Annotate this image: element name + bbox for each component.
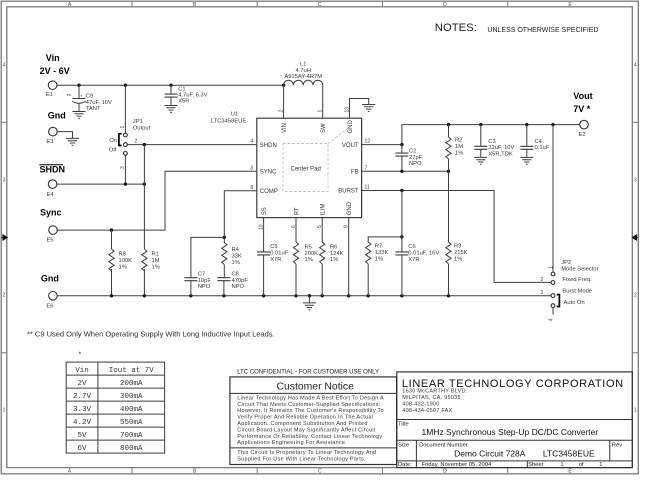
svg-text:NOTES:: NOTES: xyxy=(435,22,477,34)
wire SHDN jumper to U1 xyxy=(127,144,257,146)
svg-text:X7R: X7R xyxy=(270,257,281,263)
svg-text:1M: 1M xyxy=(455,144,463,150)
svg-text:Application. Component Substit: Application. Component Substitution And … xyxy=(237,421,367,427)
svg-text:R1: R1 xyxy=(152,252,159,258)
svg-text:Off: Off xyxy=(109,147,117,153)
junction dots ground bus xyxy=(110,294,450,297)
svg-text:Customer Notice: Customer Notice xyxy=(277,382,355,393)
svg-text:300mA: 300mA xyxy=(120,393,143,401)
svg-text:C4: C4 xyxy=(535,139,543,145)
svg-text:D: D xyxy=(443,2,447,8)
resistor R8 xyxy=(109,230,132,296)
node SHDN label xyxy=(39,164,65,174)
svg-text:Auto On: Auto On xyxy=(564,300,585,306)
capacitor C1 xyxy=(165,85,208,105)
svg-text:*: * xyxy=(79,352,82,359)
svg-text:1%: 1% xyxy=(455,150,463,156)
wire BURST branch to R7/C6 xyxy=(368,191,402,243)
resistor R7 xyxy=(366,242,389,296)
svg-text:1: 1 xyxy=(3,408,6,414)
svg-text:C: C xyxy=(318,2,322,8)
svg-text:Demo Circuit 728A: Demo Circuit 728A xyxy=(454,448,526,458)
svg-text:Circuit That Meets Customer-Su: Circuit That Meets Customer-Supplied Spe… xyxy=(237,402,380,408)
inductor L1 xyxy=(284,62,323,86)
svg-text:LTC3458EUE: LTC3458EUE xyxy=(543,448,595,458)
svg-text:X5R: X5R xyxy=(178,99,189,105)
U1 pin names xyxy=(260,120,359,216)
svg-text:Verify Proper And Reliable Ope: Verify Proper And Reliable Operation In … xyxy=(237,415,373,421)
svg-text:Vout: Vout xyxy=(573,91,592,101)
svg-text:ILIM: ILIM xyxy=(321,204,327,216)
ground C3 xyxy=(474,157,487,164)
svg-text:UNLESS OTHERWISE SPECIFIED: UNLESS OTHERWISE SPECIFIED xyxy=(487,27,598,34)
svg-text:Output: Output xyxy=(133,126,151,132)
svg-text:2: 2 xyxy=(540,277,543,283)
IC U1 LTC3458EUE body xyxy=(211,112,362,218)
svg-text:Circuit Board Layout May Signi: Circuit Board Layout May Significantly A… xyxy=(237,427,375,433)
junction on SHDN wire xyxy=(143,143,146,146)
svg-text:10pF: 10pF xyxy=(198,278,212,284)
svg-text:Gnd: Gnd xyxy=(48,110,66,120)
svg-text:3.3V: 3.3V xyxy=(73,406,92,414)
svg-text:JP2: JP2 xyxy=(561,260,571,266)
svg-text:D: D xyxy=(443,469,447,475)
wire Sync net xyxy=(57,171,256,230)
svg-text:3: 3 xyxy=(540,290,543,296)
svg-text:TANT: TANT xyxy=(86,106,101,112)
capacitor C7 xyxy=(184,271,211,295)
svg-text:GND: GND xyxy=(348,120,354,134)
jumper JP2 Mode Selector xyxy=(540,125,598,322)
svg-text:This Circuit Is Proprietary To: This Circuit Is Proprietary To Linear Te… xyxy=(237,450,376,456)
svg-text:U1: U1 xyxy=(231,112,238,118)
svg-text:Vin: Vin xyxy=(75,367,89,375)
svg-text:RT: RT xyxy=(294,207,300,215)
svg-text:SHDN: SHDN xyxy=(40,164,66,174)
ground E3 xyxy=(66,138,79,145)
title block xyxy=(397,372,633,468)
svg-text:2V: 2V xyxy=(77,380,87,388)
svg-text:700mA: 700mA xyxy=(120,432,143,440)
wire GND pin 13 xyxy=(350,99,369,119)
wire GND pin 9 xyxy=(348,218,350,296)
U1 center pad xyxy=(283,128,349,192)
svg-text:R3: R3 xyxy=(454,244,461,250)
svg-text:3: 3 xyxy=(120,166,126,169)
svg-text:5V: 5V xyxy=(77,432,87,440)
svg-text:On: On xyxy=(109,138,117,144)
resistor R4 xyxy=(222,237,242,277)
terminal E3 xyxy=(49,127,58,136)
wire COMP net xyxy=(191,191,257,278)
junction BURST xyxy=(400,189,403,192)
svg-text:0.01uF: 0.01uF xyxy=(270,251,289,257)
svg-text:E4: E4 xyxy=(47,192,55,198)
junctions FB net xyxy=(400,170,450,173)
svg-text:SHDN: SHDN xyxy=(260,143,277,149)
svg-text:Rev: Rev xyxy=(612,442,622,448)
svg-text:1%: 1% xyxy=(232,260,240,266)
svg-text:A915AY-4R7M: A915AY-4R7M xyxy=(284,74,322,80)
svg-text:COMP: COMP xyxy=(260,189,278,195)
svg-text:1M: 1M xyxy=(152,258,160,264)
terminal E1 xyxy=(48,81,57,90)
svg-text:Applications Engineering For A: Applications Engineering For Assistance. xyxy=(237,440,347,446)
svg-text:2: 2 xyxy=(3,293,6,299)
svg-text:C3: C3 xyxy=(488,139,495,145)
svg-text:C5: C5 xyxy=(270,244,277,250)
capacitor C4 xyxy=(520,125,549,158)
svg-text:133K: 133K xyxy=(375,250,389,256)
terminal E4 xyxy=(48,180,57,189)
svg-text:FB: FB xyxy=(351,170,359,176)
svg-text:1: 1 xyxy=(560,462,563,468)
svg-text:E3: E3 xyxy=(46,139,53,145)
svg-text:JP1: JP1 xyxy=(133,119,143,125)
junction R7 branch xyxy=(400,235,403,238)
svg-text:4: 4 xyxy=(548,318,554,321)
resistor R6 on ILIM xyxy=(320,218,344,296)
svg-text:Iout at 7V: Iout at 7V xyxy=(109,367,155,375)
svg-text:3: 3 xyxy=(3,178,6,184)
resistor R3 xyxy=(446,171,468,295)
table Vin vs Iout xyxy=(66,362,164,453)
svg-text:47uF, 10V: 47uF, 10V xyxy=(86,100,112,106)
svg-text:4: 4 xyxy=(634,63,637,69)
svg-text:0.01uF, 16V: 0.01uF, 16V xyxy=(408,251,439,257)
svg-text:1630 McCARTHY BLVD.: 1630 McCARTHY BLVD. xyxy=(402,389,467,395)
capacitor C3 xyxy=(474,125,514,158)
wire ground bus xyxy=(57,295,551,297)
svg-text:1%: 1% xyxy=(330,257,338,263)
wire SS pin to C5 xyxy=(263,218,265,252)
wire VOUT pin to rail xyxy=(362,125,580,145)
U1 pin numbers xyxy=(250,107,370,230)
svg-text:VIN: VIN xyxy=(282,123,288,133)
svg-text:E6: E6 xyxy=(46,303,53,309)
svg-text:MILPITAS, CA. 95035: MILPITAS, CA. 95035 xyxy=(402,395,460,401)
svg-text:33K: 33K xyxy=(232,253,242,259)
wire Vin rail xyxy=(57,84,284,86)
svg-text:3: 3 xyxy=(250,165,253,171)
svg-text:215K: 215K xyxy=(454,250,468,256)
svg-text:of: of xyxy=(579,462,584,468)
svg-text:LTC CONFIDENTIAL - FOR CUSTOME: LTC CONFIDENTIAL - FOR CUSTOMER USE ONLY xyxy=(237,369,379,375)
svg-text:408-434-0507 FAX: 408-434-0507 FAX xyxy=(402,408,452,414)
resistor R5 on RT xyxy=(293,218,318,296)
svg-text:R5: R5 xyxy=(305,244,312,250)
svg-text:0.1uF: 0.1uF xyxy=(535,145,550,151)
wire E3 to ground xyxy=(57,132,72,139)
wire SHDN from E4 xyxy=(57,183,144,185)
capacitor C8 xyxy=(217,271,248,295)
svg-text:Sheet: Sheet xyxy=(528,462,544,468)
svg-text:E1: E1 xyxy=(46,92,53,98)
svg-text:8: 8 xyxy=(250,185,253,191)
svg-text:7: 7 xyxy=(365,165,368,171)
svg-text:** C9 Used Only When Operating: ** C9 Used Only When Operating Supply Wi… xyxy=(27,330,275,339)
ground C1 xyxy=(165,106,178,113)
svg-text:Sync: Sync xyxy=(40,208,62,218)
terminal E6 xyxy=(49,292,58,301)
svg-text:800mA: 800mA xyxy=(120,445,143,453)
svg-text:11: 11 xyxy=(365,185,370,191)
wire BURST net xyxy=(362,191,552,283)
wire FB net xyxy=(362,170,449,172)
svg-text:SS: SS xyxy=(262,207,268,215)
svg-text:+: + xyxy=(80,94,83,99)
svg-text:NPO: NPO xyxy=(409,161,422,167)
junction dots Vin rail xyxy=(77,84,285,87)
svg-text:C1: C1 xyxy=(178,87,185,93)
svg-text:X5R,TDK: X5R,TDK xyxy=(488,151,513,157)
svg-text:1%: 1% xyxy=(305,257,313,263)
svg-text:R6: R6 xyxy=(330,244,337,250)
svg-text:Size: Size xyxy=(398,442,409,448)
svg-text:1%: 1% xyxy=(454,256,462,262)
svg-text:4: 4 xyxy=(3,63,6,69)
svg-text:1: 1 xyxy=(634,408,637,414)
junction Sync wire xyxy=(110,228,113,231)
svg-text:1: 1 xyxy=(599,462,602,468)
svg-text:C7: C7 xyxy=(198,271,205,277)
svg-text:R4: R4 xyxy=(232,247,240,253)
svg-text:408-432-1900: 408-432-1900 xyxy=(402,401,439,407)
svg-text:NPO: NPO xyxy=(198,284,211,290)
svg-text:VOUT: VOUT xyxy=(342,143,359,149)
svg-text:Title: Title xyxy=(398,421,409,427)
svg-text:LTC3458EUE: LTC3458EUE xyxy=(211,118,246,124)
svg-text:1: 1 xyxy=(548,266,554,269)
junctions SHDN wire xyxy=(124,182,146,185)
svg-text:400mA: 400mA xyxy=(120,406,143,414)
junction dots output rail xyxy=(400,123,555,146)
capacitor C6 xyxy=(395,237,439,296)
svg-text:4.7uF, 6.3V: 4.7uF, 6.3V xyxy=(178,93,207,99)
svg-text:12: 12 xyxy=(365,139,371,145)
svg-text:Vin: Vin xyxy=(46,53,60,63)
terminal E5 xyxy=(49,226,58,235)
svg-text:3: 3 xyxy=(634,178,637,184)
svg-text:124K: 124K xyxy=(330,251,344,257)
svg-text:4.7uH: 4.7uH xyxy=(295,68,310,74)
jumper JP1 Output xyxy=(109,85,151,184)
svg-text:1: 1 xyxy=(120,126,126,129)
ground symbol on bus xyxy=(303,296,316,310)
svg-text:C: C xyxy=(318,469,322,475)
svg-text:E5: E5 xyxy=(47,238,54,244)
svg-text:1%: 1% xyxy=(152,265,160,271)
resistor R1 xyxy=(142,249,160,271)
svg-text:C2: C2 xyxy=(409,149,416,155)
svg-text:100K: 100K xyxy=(119,258,133,264)
svg-text:Burst Mode: Burst Mode xyxy=(562,288,592,294)
svg-text:200K: 200K xyxy=(305,251,319,257)
svg-text:GND: GND xyxy=(347,201,353,215)
svg-text:C9: C9 xyxy=(86,94,93,100)
svg-text:2V - 6V: 2V - 6V xyxy=(40,66,70,76)
terminal E2 xyxy=(580,120,589,129)
svg-text:Fixed Freq.: Fixed Freq. xyxy=(562,277,592,283)
customer notice box xyxy=(230,377,397,465)
svg-text:Date:: Date: xyxy=(398,462,412,468)
capacitor C2 xyxy=(395,145,422,172)
svg-text:However, It Remains The Custom: However, It Remains The Customer's Respo… xyxy=(237,408,384,414)
svg-text:1%: 1% xyxy=(119,265,127,271)
svg-text:2: 2 xyxy=(634,293,637,299)
svg-text:Performance Or Reliability. Co: Performance Or Reliability. Contact Line… xyxy=(237,434,382,440)
svg-text:22uF, 10V: 22uF, 10V xyxy=(488,145,514,151)
svg-text:Friday, November 05, 2004: Friday, November 05, 2004 xyxy=(422,462,493,468)
wire VIN pin xyxy=(283,85,285,118)
svg-text:4: 4 xyxy=(250,139,253,145)
svg-text:L1: L1 xyxy=(300,62,306,68)
svg-text:SW: SW xyxy=(321,123,327,133)
svg-text:Mode Selector: Mode Selector xyxy=(561,266,598,272)
svg-text:**: ** xyxy=(67,94,72,100)
svg-text:X7R: X7R xyxy=(408,257,419,263)
capacitor C9 xyxy=(67,85,113,112)
svg-text:C6: C6 xyxy=(408,244,415,250)
wire R1 branch xyxy=(143,145,145,296)
svg-text:E2: E2 xyxy=(579,132,586,138)
svg-text:R7: R7 xyxy=(375,244,382,250)
resistor R2 xyxy=(446,125,463,172)
wire SW pin xyxy=(322,85,324,118)
svg-text:R8: R8 xyxy=(119,252,126,258)
svg-text:Linear Technology Has Made A B: Linear Technology Has Made A Best Effort… xyxy=(237,395,384,401)
svg-text:SYNC: SYNC xyxy=(260,170,277,176)
svg-text:470pF: 470pF xyxy=(232,278,249,284)
svg-text:Supplied For Use With Linear T: Supplied For Use With Linear Technology … xyxy=(237,457,366,463)
ground C9 xyxy=(73,112,86,119)
svg-text:1MHz Synchronous Step-Up DC/DC: 1MHz Synchronous Step-Up DC/DC Converter xyxy=(422,427,599,437)
svg-text:1%: 1% xyxy=(375,256,383,262)
svg-text:NPO: NPO xyxy=(232,284,245,290)
svg-text:Gnd: Gnd xyxy=(41,273,59,283)
svg-text:R2: R2 xyxy=(455,138,462,144)
svg-text:Center Pad: Center Pad xyxy=(291,166,321,172)
svg-text:200mA: 200mA xyxy=(120,380,143,388)
svg-text:BURST: BURST xyxy=(338,189,359,195)
svg-text:550mA: 550mA xyxy=(120,419,143,427)
svg-text:4.2V: 4.2V xyxy=(73,419,92,427)
ground C4 xyxy=(520,157,533,164)
svg-text:6V: 6V xyxy=(77,445,87,453)
svg-text:C8: C8 xyxy=(232,271,239,277)
capacitor C5 xyxy=(257,244,289,296)
svg-text:7V *: 7V * xyxy=(573,104,591,114)
svg-text:2: 2 xyxy=(135,139,138,145)
svg-text:2.7V: 2.7V xyxy=(73,393,92,401)
junction COMP branch xyxy=(223,236,226,239)
ground pin13 xyxy=(362,105,375,112)
node Vout label xyxy=(573,91,592,114)
